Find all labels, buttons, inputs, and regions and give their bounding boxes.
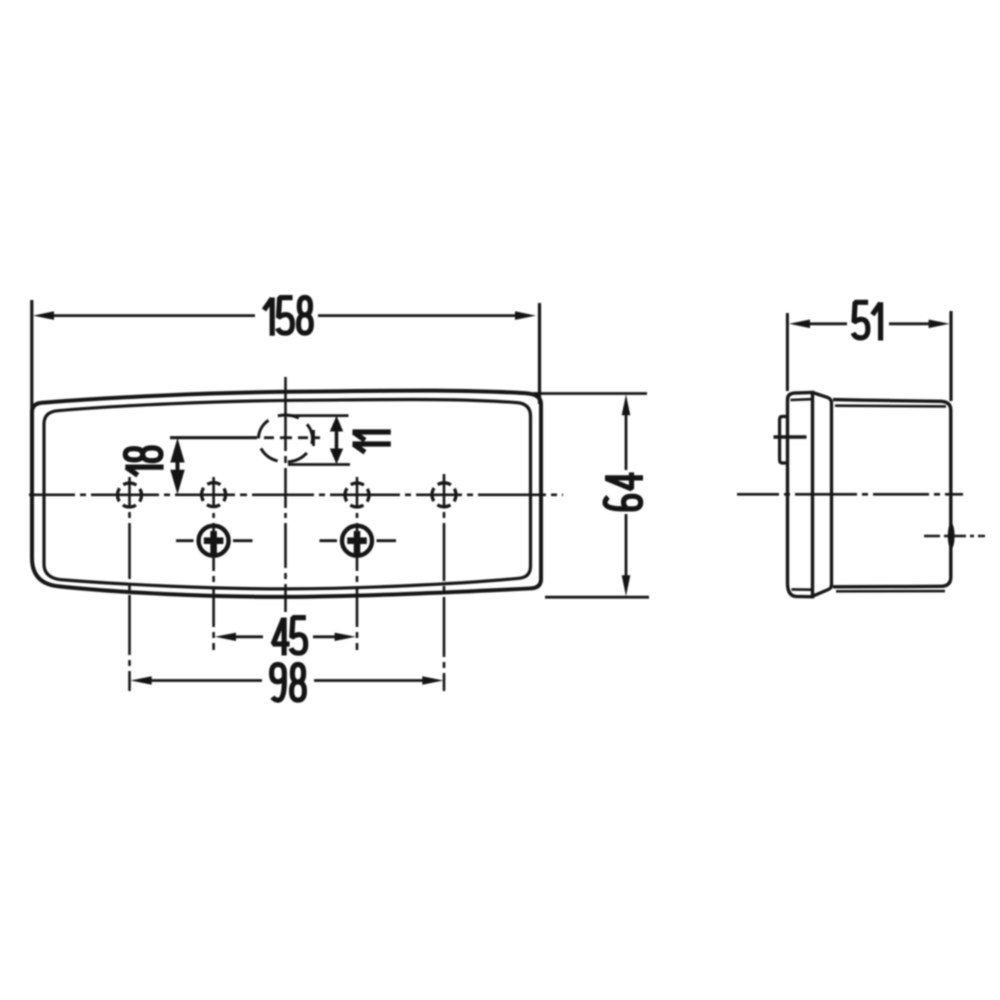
hole centerline x=213.6 xyxy=(212,477,215,650)
dimension 11 label xyxy=(353,432,391,452)
front view inner outline xyxy=(44,399,531,588)
side view rear stud bump xyxy=(948,523,955,549)
dimension 51 left arrowhead xyxy=(789,320,810,329)
screw head 1 xyxy=(199,526,229,556)
vertical centerline through lamp center xyxy=(284,377,287,612)
dimension 64 top arrowhead xyxy=(622,394,631,415)
dimension 51 right arrowhead xyxy=(929,320,950,329)
dimension 11 bottom line xyxy=(288,463,350,466)
side view housing inner bottom line xyxy=(836,590,945,593)
side view bezel strip xyxy=(813,393,832,596)
dimension 64 label xyxy=(605,472,643,509)
dimension 64 extension line top xyxy=(533,392,647,395)
dimension 158 right arrowhead xyxy=(515,311,536,320)
dimension 45 line xyxy=(236,635,263,638)
side view housing outline xyxy=(833,400,951,587)
horizontal main centerline xyxy=(29,493,563,496)
dimension 98 right arrowhead xyxy=(422,676,443,684)
dimension 98 line xyxy=(151,679,262,682)
dimension 45 label xyxy=(273,618,306,656)
side view housing inner top line xyxy=(835,404,946,407)
side view rear stud centerline xyxy=(924,535,985,538)
dimension 11 top line xyxy=(288,414,349,417)
dimension 158 left arrowhead xyxy=(33,311,54,320)
side view lens inner bottom line xyxy=(792,588,812,591)
dimension 45 right arrowhead xyxy=(335,633,356,641)
hole circle 1 xyxy=(118,483,142,507)
dimension 51 extension line left xyxy=(786,313,789,391)
hole centerline x=444 xyxy=(443,474,446,691)
dimension 64 line xyxy=(625,414,628,470)
front view outer outline xyxy=(32,391,541,597)
dimension 64 bottom arrowhead xyxy=(622,575,631,596)
dimension 11 double arrow xyxy=(335,431,339,450)
hole centerline x=357 xyxy=(356,477,359,650)
license window dashed circle xyxy=(259,415,313,462)
dimension 51 extension line right xyxy=(949,311,952,401)
dimension 18 label xyxy=(125,448,163,475)
dimension 51 line xyxy=(808,322,847,325)
hole circle 2 xyxy=(202,483,226,507)
side view lug centerline xyxy=(774,435,807,438)
dimension 98 left arrowhead xyxy=(131,676,152,684)
hole centerline x=129.5 xyxy=(128,477,131,691)
screw head 2 xyxy=(342,526,372,556)
circle right edge tick xyxy=(312,430,315,446)
dimension 158 line xyxy=(52,314,255,317)
dimension 98 label xyxy=(272,665,305,701)
dimension 18 reference line xyxy=(170,436,257,439)
circle horizontal centerline xyxy=(170,436,257,439)
side view main centerline xyxy=(737,493,963,496)
dimension 45 left arrowhead xyxy=(215,633,236,641)
dimension 158 extension line left xyxy=(30,300,33,414)
side view mounting lug xyxy=(780,417,788,464)
side view lens front outline xyxy=(788,392,813,596)
dimension 158 extension line right xyxy=(538,303,541,404)
dimension 64 extension line bottom xyxy=(545,596,649,599)
hole circle 4 xyxy=(432,483,456,507)
hole circle 3 xyxy=(345,483,369,507)
dimension 18 double arrow xyxy=(176,458,180,474)
dimension 158 label xyxy=(264,298,311,336)
side view lens inner top line xyxy=(791,398,812,401)
dimension 51 label xyxy=(853,302,880,340)
